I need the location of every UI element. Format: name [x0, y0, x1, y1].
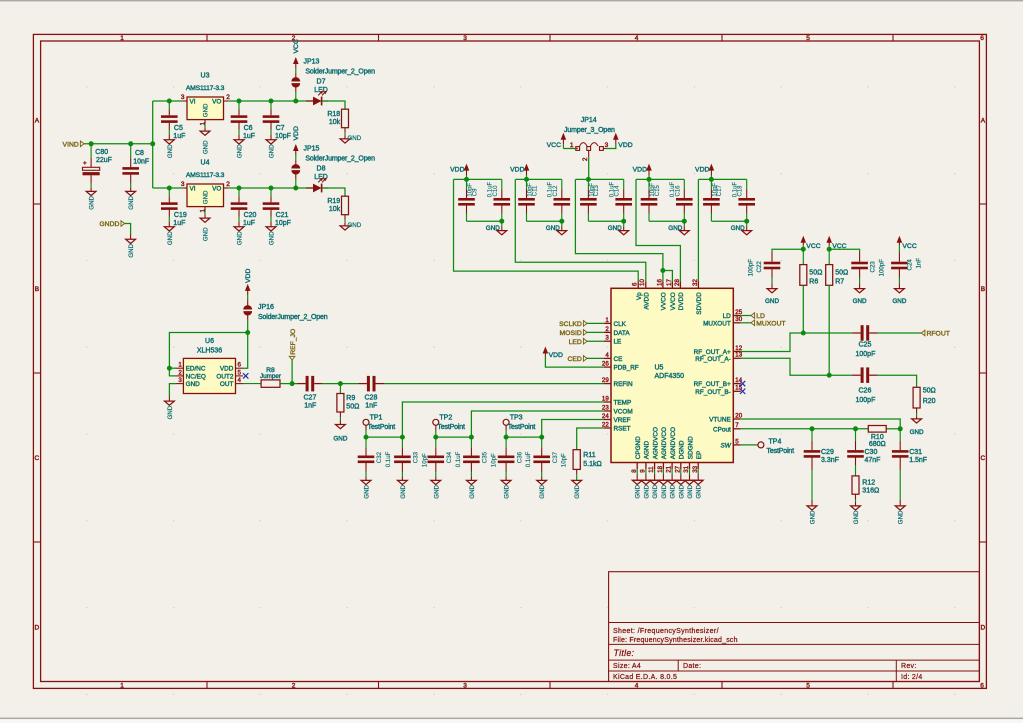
svg-text:680Ω: 680Ω	[869, 441, 886, 448]
svg-text:100pF: 100pF	[856, 351, 876, 358]
svg-text:Id: 2/4: Id: 2/4	[901, 674, 923, 681]
svg-text:ED/NC: ED/NC	[186, 366, 206, 373]
svg-text:C9: C9	[472, 188, 478, 196]
svg-text:0.1uF: 0.1uF	[455, 451, 462, 467]
svg-text:VVCO: VVCO	[670, 292, 677, 310]
svg-text:C: C	[981, 455, 986, 462]
svg-text:23: 23	[602, 404, 609, 411]
svg-text:GND: GND	[810, 510, 817, 524]
svg-text:CE: CE	[614, 356, 623, 363]
svg-text:VIND: VIND	[63, 142, 79, 149]
svg-text:Jumper: Jumper	[260, 373, 281, 380]
svg-text:OUT: OUT	[220, 381, 234, 388]
svg-text:GND: GND	[910, 429, 924, 436]
svg-text:VCOM: VCOM	[614, 409, 633, 416]
svg-text:DVDD: DVDD	[678, 292, 685, 310]
svg-text:REF_JO: REF_JO	[290, 329, 297, 355]
svg-text:MUXOUT: MUXOUT	[756, 321, 785, 328]
svg-text:TestPoint: TestPoint	[437, 424, 465, 431]
svg-text:GND: GND	[348, 222, 362, 229]
svg-text:D: D	[981, 624, 986, 631]
svg-text:C15: C15	[655, 185, 661, 197]
svg-text:C35: C35	[482, 451, 489, 463]
svg-text:VDD: VDD	[245, 269, 252, 283]
svg-text:C11: C11	[532, 185, 538, 196]
svg-text:C24: C24	[907, 259, 914, 271]
svg-text:SW: SW	[721, 442, 732, 449]
svg-text:SDGND: SDGND	[687, 436, 694, 459]
svg-text:3: 3	[181, 181, 185, 188]
svg-text:2: 2	[582, 157, 589, 161]
svg-text:VCC: VCC	[547, 142, 561, 149]
svg-text:C27: C27	[304, 394, 317, 401]
svg-text:1uF: 1uF	[243, 133, 255, 140]
svg-text:AGNDVCO: AGNDVCO	[661, 427, 668, 459]
svg-text:GND: GND	[167, 405, 174, 419]
svg-text:GND: GND	[678, 484, 685, 498]
svg-text:DATA: DATA	[614, 330, 631, 337]
svg-text:24: 24	[602, 413, 609, 420]
svg-text:10pF: 10pF	[561, 453, 568, 467]
svg-text:DGND: DGND	[679, 440, 686, 459]
svg-text:R20: R20	[923, 398, 936, 405]
svg-text:VDD: VDD	[510, 166, 524, 173]
svg-text:VI: VI	[190, 99, 196, 106]
svg-text:GND: GND	[853, 298, 867, 305]
svg-text:AMS1117-3.3: AMS1117-3.3	[186, 172, 225, 179]
svg-text:10pF: 10pF	[490, 453, 497, 467]
svg-text:C33: C33	[413, 451, 420, 463]
svg-text:GND: GND	[504, 484, 511, 498]
svg-text:C14: C14	[615, 185, 621, 197]
svg-text:U3: U3	[201, 72, 210, 79]
svg-text:C32: C32	[376, 451, 383, 463]
svg-text:GND: GND	[670, 484, 677, 498]
svg-text:TestPoint: TestPoint	[767, 448, 795, 455]
svg-text:VTUNE: VTUNE	[709, 417, 731, 424]
svg-text:KiCad E.D.A. 8.0.5: KiCad E.D.A. 8.0.5	[613, 674, 677, 681]
svg-text:R6: R6	[809, 278, 818, 285]
svg-text:VCC: VCC	[806, 243, 820, 250]
svg-text:Vp: Vp	[636, 292, 643, 300]
svg-text:C16: C16	[675, 185, 681, 197]
svg-text:10: 10	[639, 279, 646, 286]
svg-text:VCC: VCC	[902, 243, 916, 250]
svg-text:JP15: JP15	[304, 145, 320, 152]
svg-text:26: 26	[602, 361, 609, 368]
svg-text:4: 4	[635, 35, 639, 42]
svg-text:GND: GND	[546, 225, 560, 232]
svg-text:GND: GND	[652, 484, 659, 498]
svg-text:A: A	[35, 117, 40, 124]
svg-text:C17: C17	[717, 185, 723, 197]
svg-text:47nF: 47nF	[865, 457, 881, 464]
svg-text:JP16: JP16	[258, 304, 274, 311]
svg-text:C20: C20	[244, 212, 257, 219]
svg-text:CED: CED	[567, 356, 581, 363]
svg-text:GND: GND	[128, 243, 135, 257]
svg-text:0.1uF: 0.1uF	[385, 451, 392, 467]
svg-text:2: 2	[178, 369, 182, 376]
svg-text:GND: GND	[364, 484, 371, 498]
svg-text:4: 4	[605, 352, 609, 359]
svg-text:GNDD: GNDD	[99, 221, 119, 228]
svg-text:TP2: TP2	[439, 414, 452, 421]
svg-text:C36: C36	[516, 451, 523, 463]
svg-text:C31: C31	[909, 449, 922, 456]
svg-text:C18: C18	[738, 185, 744, 197]
svg-text:VDD: VDD	[618, 142, 632, 149]
svg-text:B: B	[981, 286, 985, 293]
svg-text:C25: C25	[859, 342, 872, 349]
svg-text:VDD: VDD	[293, 126, 300, 140]
svg-text:EP: EP	[696, 451, 703, 460]
svg-text:TP4: TP4	[769, 439, 782, 446]
svg-text:NC/EQ: NC/EQ	[186, 373, 206, 380]
svg-text:AGNDVCO: AGNDVCO	[670, 427, 677, 459]
svg-text:4: 4	[635, 682, 639, 689]
svg-text:AGNDVCO: AGNDVCO	[652, 427, 659, 459]
svg-text:2: 2	[226, 181, 230, 188]
svg-text:32: 32	[692, 279, 699, 286]
svg-text:AMS1117-3.3: AMS1117-3.3	[186, 85, 225, 92]
svg-text:C12: C12	[553, 185, 559, 197]
svg-text:C37: C37	[552, 451, 559, 463]
svg-text:D7: D7	[317, 79, 326, 86]
svg-text:SolderJumper_2_Open: SolderJumper_2_Open	[258, 314, 328, 321]
svg-text:GND: GND	[89, 195, 96, 209]
svg-text:50Ω: 50Ω	[346, 404, 359, 411]
svg-text:3: 3	[178, 377, 182, 384]
svg-text:3: 3	[605, 335, 609, 342]
svg-text:C5: C5	[174, 125, 183, 132]
svg-text:3: 3	[181, 94, 185, 101]
svg-text:GND: GND	[269, 144, 276, 158]
svg-text:REFIN: REFIN	[614, 381, 634, 388]
svg-text:C7: C7	[276, 125, 285, 132]
svg-text:C6: C6	[244, 125, 253, 132]
svg-text:C19: C19	[174, 212, 187, 219]
svg-text:VREF: VREF	[614, 417, 631, 424]
svg-text:A: A	[981, 117, 986, 124]
svg-text:OUT2: OUT2	[216, 373, 233, 380]
svg-text:PDB_RF: PDB_RF	[614, 365, 639, 372]
svg-text:GND: GND	[167, 231, 174, 245]
svg-text:R12: R12	[862, 480, 875, 487]
svg-text:TestPoint: TestPoint	[508, 424, 536, 431]
svg-text:1nF: 1nF	[916, 258, 923, 269]
svg-text:RFOUT: RFOUT	[927, 331, 950, 338]
svg-text:6: 6	[238, 362, 242, 369]
svg-text:LD: LD	[756, 313, 765, 320]
svg-text:MUXOUT: MUXOUT	[703, 320, 731, 327]
svg-text:GND: GND	[687, 484, 694, 498]
svg-text:3: 3	[605, 142, 609, 149]
svg-text:C21: C21	[276, 212, 289, 219]
svg-text:GND: GND	[400, 484, 407, 498]
svg-text:C30: C30	[865, 449, 878, 456]
svg-text:CPGND: CPGND	[635, 436, 642, 459]
svg-text:RSET: RSET	[614, 426, 631, 433]
svg-text:GND: GND	[237, 231, 244, 245]
svg-text:GND: GND	[469, 484, 476, 498]
svg-text:50Ω: 50Ω	[923, 388, 936, 395]
svg-text:GND: GND	[348, 135, 362, 142]
svg-text:AGND: AGND	[644, 440, 651, 459]
svg-text:File: FrequencySynthesizer.kic: File: FrequencySynthesizer.kicad_sch	[613, 637, 738, 644]
svg-text:6: 6	[980, 35, 984, 42]
svg-text:GND: GND	[643, 484, 650, 498]
svg-text:GND: GND	[186, 381, 201, 388]
svg-text:C: C	[35, 455, 40, 462]
svg-text:29: 29	[602, 377, 609, 384]
svg-text:GND: GND	[892, 298, 906, 305]
svg-text:C34: C34	[446, 451, 453, 463]
svg-text:AVDD: AVDD	[644, 292, 651, 310]
svg-text:13: 13	[735, 352, 742, 359]
svg-text:SolderJumper_2_Open: SolderJumper_2_Open	[305, 68, 375, 75]
svg-text:GND: GND	[167, 144, 174, 158]
svg-text:GND: GND	[333, 436, 347, 443]
svg-text:2: 2	[226, 94, 230, 101]
svg-text:5: 5	[806, 682, 810, 689]
svg-text:SDVDD: SDVDD	[696, 292, 703, 315]
svg-text:TestPoint: TestPoint	[368, 424, 396, 431]
svg-text:22uF: 22uF	[96, 157, 112, 164]
svg-text:GND: GND	[765, 298, 779, 305]
svg-text:0.1uF: 0.1uF	[525, 451, 532, 467]
svg-text:GND: GND	[202, 190, 209, 204]
svg-text:GND: GND	[731, 225, 745, 232]
svg-text:TP3: TP3	[510, 414, 523, 421]
svg-text:30: 30	[735, 316, 742, 323]
svg-text:19: 19	[602, 395, 609, 402]
svg-text:C8: C8	[135, 150, 144, 157]
svg-text:6: 6	[632, 282, 639, 286]
svg-text:2: 2	[292, 682, 296, 689]
svg-text:JP14: JP14	[581, 117, 597, 124]
svg-text:U6: U6	[205, 338, 214, 345]
svg-text:VDD: VDD	[450, 166, 464, 173]
svg-text:VCC: VCC	[293, 39, 300, 53]
svg-text:10nF: 10nF	[133, 158, 149, 165]
svg-text:GND: GND	[237, 144, 244, 158]
svg-text:25: 25	[735, 309, 742, 316]
svg-text:3.3nF: 3.3nF	[821, 457, 839, 464]
svg-text:4: 4	[238, 377, 242, 384]
svg-text:50Ω: 50Ω	[835, 269, 848, 276]
svg-text:6: 6	[980, 682, 984, 689]
svg-text:MOSID: MOSID	[560, 330, 582, 337]
svg-text:100pF: 100pF	[856, 397, 876, 404]
svg-text:GND: GND	[696, 484, 703, 498]
svg-text:GND: GND	[486, 225, 500, 232]
svg-text:VI: VI	[190, 186, 196, 193]
svg-text:100pF: 100pF	[748, 259, 755, 277]
svg-text:5: 5	[806, 35, 810, 42]
svg-text:1: 1	[120, 35, 124, 42]
svg-text:VO: VO	[212, 186, 221, 193]
svg-text:1: 1	[120, 682, 124, 689]
svg-text:10pF: 10pF	[275, 220, 291, 227]
svg-text:LD: LD	[723, 313, 732, 320]
svg-text:Rev:: Rev:	[901, 663, 917, 670]
svg-text:SCLKD: SCLKD	[559, 321, 582, 328]
svg-text:C23: C23	[869, 261, 876, 273]
svg-text:20: 20	[735, 412, 742, 419]
svg-text:C10: C10	[493, 185, 499, 197]
svg-text:GND: GND	[661, 484, 668, 498]
svg-text:GND: GND	[853, 510, 860, 524]
svg-text:50Ω: 50Ω	[809, 269, 822, 276]
svg-text:Jumper_3_Open: Jumper_3_Open	[564, 127, 615, 134]
svg-text:5: 5	[238, 369, 242, 376]
svg-text:CLK: CLK	[614, 321, 627, 328]
svg-text:GND: GND	[433, 484, 440, 498]
svg-text:RF_OUT_A-: RF_OUT_A-	[695, 356, 731, 363]
svg-text:GND: GND	[202, 103, 209, 117]
svg-text:28: 28	[674, 279, 681, 286]
svg-text:316Ω: 316Ω	[862, 488, 879, 495]
svg-text:1: 1	[605, 317, 609, 324]
svg-text:1uF: 1uF	[173, 220, 185, 227]
svg-text:1: 1	[178, 362, 182, 369]
svg-text:1: 1	[570, 142, 574, 149]
svg-text:LE: LE	[614, 339, 622, 346]
svg-text:VDD: VDD	[549, 352, 563, 359]
svg-text:ADF4350: ADF4350	[655, 373, 685, 380]
svg-text:C80: C80	[95, 149, 108, 156]
svg-text:GND: GND	[539, 484, 546, 498]
svg-text:U5: U5	[655, 365, 664, 372]
svg-text:3: 3	[463, 35, 467, 42]
svg-text:1uF: 1uF	[243, 220, 255, 227]
svg-text:RF_OUT_B+: RF_OUT_B+	[694, 381, 731, 388]
svg-text:1nF: 1nF	[304, 403, 316, 410]
svg-text:GND: GND	[574, 484, 581, 498]
svg-text:C13: C13	[594, 185, 600, 197]
svg-text:1uF: 1uF	[173, 133, 185, 140]
svg-text:GND: GND	[203, 227, 210, 241]
svg-text:GND: GND	[269, 231, 276, 245]
svg-text:B: B	[35, 286, 39, 293]
svg-text:R7: R7	[835, 278, 844, 285]
svg-text:5.1kΩ: 5.1kΩ	[583, 461, 601, 468]
svg-text:GND: GND	[668, 225, 682, 232]
svg-text:C22: C22	[756, 261, 763, 273]
svg-text:Sheet: /FrequencySynthesizer/: Sheet: /FrequencySynthesizer/	[613, 628, 719, 635]
svg-text:VO: VO	[212, 99, 221, 106]
svg-text:U4: U4	[201, 159, 210, 166]
svg-text:Title:: Title:	[614, 648, 635, 658]
svg-text:GND: GND	[203, 140, 210, 154]
svg-text:R19: R19	[327, 198, 340, 205]
svg-text:7: 7	[735, 422, 739, 429]
svg-text:16: 16	[656, 279, 663, 286]
svg-text:GND: GND	[898, 510, 905, 524]
svg-text:10k: 10k	[329, 119, 341, 126]
svg-text:C28: C28	[365, 394, 378, 401]
svg-text:R11: R11	[583, 452, 595, 459]
svg-text:C29: C29	[821, 449, 834, 456]
svg-text:JP13: JP13	[304, 58, 320, 65]
svg-text:D: D	[35, 624, 40, 631]
svg-text:D8: D8	[317, 166, 326, 173]
svg-text:XLH536: XLH536	[197, 348, 222, 355]
svg-text:VDD: VDD	[220, 366, 234, 373]
svg-text:10k: 10k	[329, 206, 341, 213]
svg-text:GND: GND	[635, 484, 642, 498]
svg-text:10pF: 10pF	[421, 453, 428, 467]
svg-text:1.5nF: 1.5nF	[909, 457, 927, 464]
svg-text:VVCO: VVCO	[661, 292, 668, 310]
svg-text:22: 22	[602, 421, 609, 428]
svg-text:TP1: TP1	[370, 414, 383, 421]
svg-text:LED: LED	[569, 339, 582, 346]
svg-text:5: 5	[735, 438, 739, 445]
svg-text:R18: R18	[327, 111, 340, 118]
svg-text:C26: C26	[859, 388, 872, 395]
svg-text:VDD: VDD	[633, 166, 647, 173]
svg-text:Date:: Date:	[683, 663, 701, 670]
svg-text:VDD: VDD	[695, 166, 709, 173]
svg-text:2: 2	[605, 326, 609, 333]
svg-text:Size: A4: Size: A4	[613, 663, 641, 670]
svg-text:GND: GND	[608, 225, 622, 232]
svg-text:1nF: 1nF	[365, 403, 377, 410]
svg-text:TEMP: TEMP	[614, 400, 632, 407]
svg-text:17: 17	[666, 279, 673, 286]
svg-text:CPout: CPout	[713, 426, 731, 433]
svg-text:RF_OUT_B-: RF_OUT_B-	[695, 389, 731, 396]
svg-text:R9: R9	[346, 395, 355, 402]
svg-text:3: 3	[463, 682, 467, 689]
svg-text:GND: GND	[128, 195, 135, 209]
svg-text:SolderJumper_2_Open: SolderJumper_2_Open	[305, 155, 375, 162]
svg-text:100pF: 100pF	[878, 259, 885, 277]
svg-text:10pF: 10pF	[275, 133, 291, 140]
